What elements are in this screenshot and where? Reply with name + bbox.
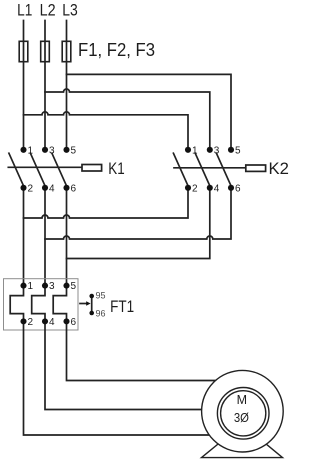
wire K1 pin 4 down to FT1 pin 3 (44, 190, 46, 284)
FT1 terminal dot pin 4 (42, 318, 48, 324)
svg-text:F1, F2, F3: F1, F2, F3 (78, 40, 155, 60)
contactor K2 pole 1 blade (173, 153, 188, 186)
wire K1 pin 2 down to FT1 pin 1 (23, 190, 25, 284)
contactor K2 pole 2 blade (195, 153, 210, 186)
K2 terminal dot pin 4 (207, 185, 213, 191)
FT1 aux contact terminal 96 dot (89, 311, 94, 316)
wire K2 pin 4 to K1 pin 6 node (67, 190, 210, 259)
wire L1 vertical feed to K1 pin 1 (23, 21, 25, 148)
svg-text:L2: L2 (40, 1, 56, 20)
wire FT1 pin 4 to motor lead middle (45, 321, 243, 409)
svg-text:6: 6 (235, 183, 241, 194)
svg-text:96: 96 (96, 309, 106, 319)
svg-text:2: 2 (28, 317, 34, 328)
K2 terminal dot pin 1 (185, 147, 191, 153)
svg-text:K2: K2 (269, 159, 289, 178)
contactor K1 pole 3 blade (52, 153, 67, 186)
svg-text:3Ø: 3Ø (234, 411, 249, 425)
K1 terminal dot pin 4 (42, 185, 48, 191)
svg-text:3: 3 (49, 145, 55, 156)
wire K1 pin 6 down to FT1 pin 5 (66, 190, 68, 284)
wire L3 vertical feed to K1 pin 5 (66, 21, 68, 148)
svg-text:5: 5 (71, 281, 77, 292)
FT1 aux contact terminal 95 dot (89, 294, 94, 299)
K1 terminal dot pin 2 (20, 185, 26, 191)
svg-text:6: 6 (71, 317, 77, 328)
contactor K2 mechanical link (174, 167, 246, 169)
FT1 terminal dot pin 3 (42, 283, 48, 289)
K1 terminal dot pin 3 (42, 147, 48, 153)
FT1 trip arrow head (86, 301, 90, 306)
contactor K1 pole 1 blade (9, 153, 24, 186)
svg-text:L3: L3 (62, 1, 78, 20)
svg-text:4: 4 (214, 183, 220, 194)
contactor K2 pole 3 blade (216, 153, 231, 186)
svg-text:4: 4 (49, 183, 55, 194)
motor M outer circle (202, 370, 284, 452)
wire FT1 pin 6 to motor lead top (67, 321, 244, 380)
svg-text:1: 1 (28, 145, 34, 156)
svg-text:M: M (237, 393, 247, 407)
svg-text:L1: L1 (17, 1, 32, 20)
K1 terminal dot pin 6 (63, 185, 69, 191)
K2 terminal dot pin 2 (185, 185, 191, 191)
FT1 trip arrow (80, 303, 86, 305)
wire L3 branch to K2 pin 5 (67, 74, 232, 147)
motor inner ring outer (217, 388, 269, 440)
svg-text:2: 2 (28, 183, 34, 194)
thermal overload relay FT1 enclosure box (4, 279, 79, 330)
FT1 auxiliary contact 95-96 blade (91, 296, 93, 313)
K2 terminal dot pin 6 (228, 185, 234, 191)
svg-text:K1: K1 (108, 159, 124, 178)
svg-text:6: 6 (71, 183, 77, 194)
svg-text:1: 1 (28, 281, 34, 292)
fuse F3 (62, 41, 71, 61)
svg-text:2: 2 (192, 183, 198, 194)
svg-text:3: 3 (214, 145, 220, 156)
K2 terminal dot pin 5 (228, 147, 234, 153)
K2 terminal dot pin 3 (207, 147, 213, 153)
svg-text:FT1: FT1 (110, 297, 134, 316)
wire L2 branch to K2 pin 3 (hop over L3) (45, 89, 210, 148)
K1 terminal dot pin 5 (63, 147, 69, 153)
contactor K1 mechanical link (8, 166, 82, 168)
K1 terminal dot pin 1 (20, 147, 26, 153)
FT1 heater element pole 2 (32, 286, 45, 322)
FT1 terminal dot pin 2 (20, 318, 26, 324)
FT1 terminal dot pin 5 (63, 283, 69, 289)
contactor K1 pole 2 blade (30, 153, 45, 186)
coil box K1 (82, 165, 102, 172)
svg-text:5: 5 (235, 145, 241, 156)
motor inner ring inner (221, 391, 266, 436)
svg-text:5: 5 (71, 145, 77, 156)
FT1 heater element pole 1 (10, 286, 23, 322)
FT1 terminal dot pin 1 (20, 283, 26, 289)
motor mounting base (202, 444, 283, 458)
svg-text:3: 3 (49, 281, 55, 292)
svg-text:95: 95 (96, 291, 106, 301)
coil box K2 (246, 165, 266, 171)
FT1 terminal dot pin 6 (63, 318, 69, 324)
fuse F2 (41, 41, 50, 61)
svg-text:1: 1 (192, 145, 198, 156)
wire K2 pin 2 to K1 pin 2 node (hops over L2 and L3 branches) (24, 190, 189, 218)
wire K2 pin 6 to K1 pin 4 node (hops over K1 pole 3 wire and K2 pole 2 wire) (45, 190, 231, 239)
svg-text:4: 4 (49, 317, 55, 328)
wire FT1 pin 2 to motor lead bottom (24, 321, 244, 435)
wire L1 branch to K2 pin 1 (hops over L2 and L3) (24, 112, 189, 148)
wire L2 vertical feed to K1 pin 3 (44, 21, 46, 148)
fuse F1 (19, 41, 28, 61)
FT1 heater element pole 3 (53, 286, 66, 322)
